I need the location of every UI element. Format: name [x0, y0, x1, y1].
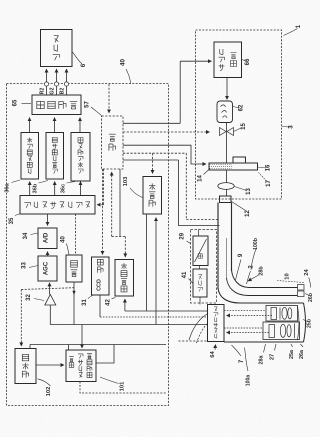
svg-text:A/D: A/D — [44, 232, 50, 243]
svg-text:66: 66 — [245, 58, 251, 65]
svg-text:100b: 100b — [253, 238, 259, 250]
svg-text:40: 40 — [120, 59, 127, 66]
svg-text:12: 12 — [245, 210, 251, 217]
svg-text:35: 35 — [9, 217, 15, 224]
svg-text:R2: R2 — [40, 88, 46, 95]
svg-text:B2: B2 — [60, 88, 66, 95]
svg-text:36b: 36b — [33, 183, 39, 193]
svg-text:14: 14 — [198, 175, 204, 182]
svg-text:25a: 25a — [289, 349, 295, 359]
svg-text:42: 42 — [106, 299, 112, 306]
svg-text:36a: 36a — [5, 182, 11, 192]
svg-text:102: 102 — [46, 387, 52, 397]
svg-text:CCD: CCD — [96, 279, 102, 291]
svg-text:26b: 26b — [308, 293, 314, 302]
svg-text:26a: 26a — [299, 349, 305, 359]
svg-text:13: 13 — [246, 188, 252, 195]
svg-text:15: 15 — [241, 123, 247, 130]
svg-text:10: 10 — [285, 273, 291, 279]
svg-text:1: 1 — [295, 24, 302, 28]
svg-text:65: 65 — [13, 99, 19, 106]
svg-text:40: 40 — [61, 236, 67, 243]
svg-text:25b: 25b — [307, 319, 313, 328]
svg-text:G2: G2 — [50, 87, 56, 94]
svg-text:64: 64 — [210, 351, 216, 358]
svg-text:16: 16 — [266, 164, 272, 171]
svg-text:32: 32 — [26, 294, 32, 301]
svg-text:27: 27 — [270, 354, 276, 360]
svg-text:28a: 28a — [259, 355, 265, 365]
svg-text:28b: 28b — [258, 266, 264, 276]
svg-text:17: 17 — [266, 180, 272, 187]
svg-text:29: 29 — [179, 232, 185, 239]
svg-text:24: 24 — [304, 269, 310, 276]
svg-text:103: 103 — [123, 176, 129, 186]
svg-text:34: 34 — [23, 232, 29, 239]
svg-text:AGC: AGC — [44, 261, 50, 275]
svg-text:100a: 100a — [246, 375, 252, 387]
svg-text:41: 41 — [182, 271, 188, 278]
svg-text:6: 6 — [80, 63, 87, 67]
svg-text:57: 57 — [85, 101, 91, 108]
svg-text:101: 101 — [119, 381, 125, 391]
svg-text:31: 31 — [82, 299, 88, 306]
svg-text:33: 33 — [22, 262, 28, 269]
svg-text:36c: 36c — [61, 184, 67, 193]
